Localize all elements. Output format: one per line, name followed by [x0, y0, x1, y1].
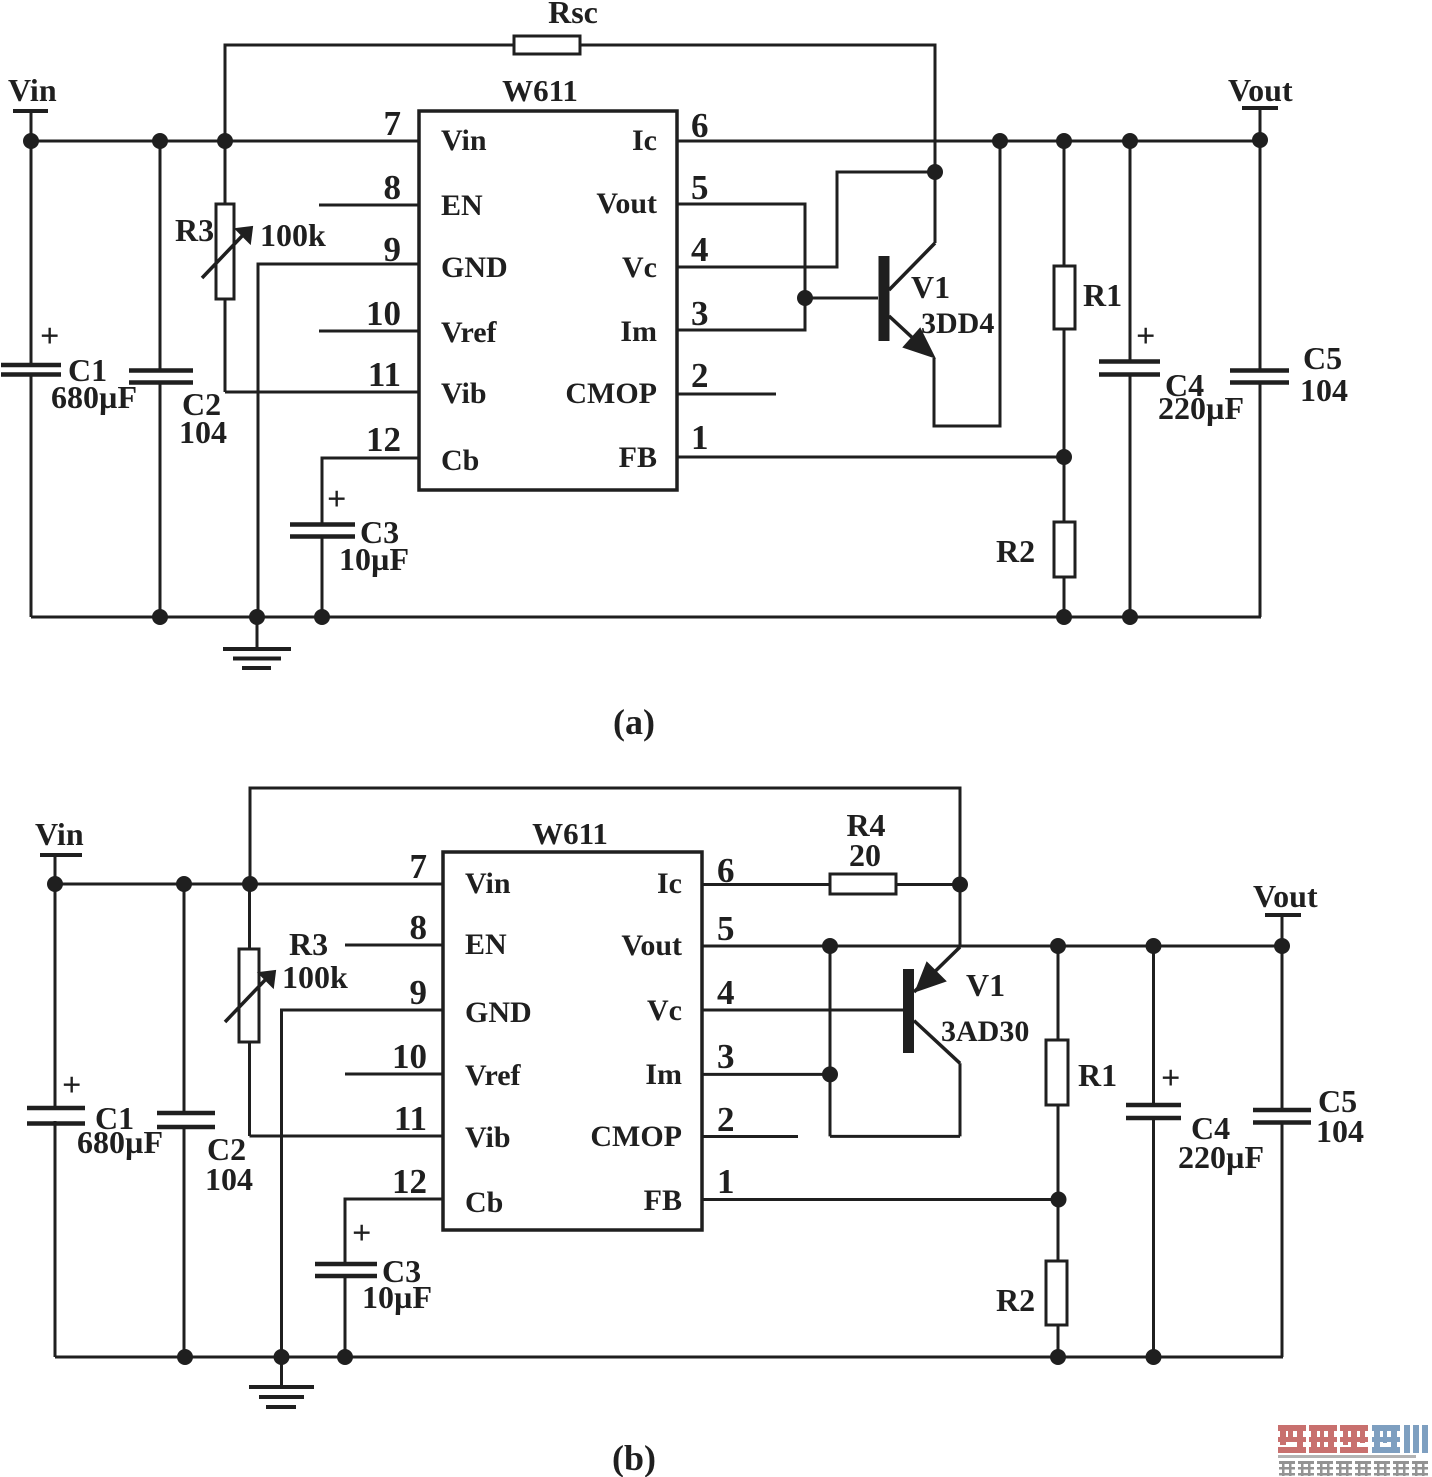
- svg-text:9: 9: [410, 973, 428, 1012]
- svg-text:V1: V1: [966, 967, 1005, 1003]
- svg-text:20: 20: [849, 837, 881, 873]
- wire FB pin 1 (b): [702, 1198, 1059, 1201]
- wire GND pin 9 (b): [282, 1010, 444, 1357]
- svg-text:Ic: Ic: [632, 124, 657, 157]
- svg-text:104: 104: [205, 1161, 253, 1197]
- IC left pin names (b): [465, 867, 532, 1219]
- junction dots (a): [23, 132, 1268, 625]
- wire FB pin 1 (a): [677, 456, 1064, 459]
- svg-text:100k: 100k: [260, 217, 326, 253]
- svg-text:GND: GND: [441, 251, 508, 284]
- svg-text:Vout: Vout: [621, 929, 682, 962]
- svg-text:+: +: [62, 1067, 81, 1104]
- svg-text:5: 5: [691, 168, 709, 207]
- svg-text:R2: R2: [996, 1282, 1035, 1318]
- svg-text:R3: R3: [289, 926, 328, 962]
- svg-text:V1: V1: [911, 269, 950, 305]
- wire Vref pin 10 stub (b): [345, 1073, 443, 1076]
- svg-text:EN: EN: [441, 189, 483, 222]
- svg-text:Rsc: Rsc: [548, 0, 598, 30]
- wire ground rail bottom (a): [31, 616, 1261, 619]
- svg-text:Cb: Cb: [441, 444, 479, 477]
- wire Vc pin 4 to base (b): [702, 1009, 903, 1012]
- svg-text:Vout: Vout: [1228, 72, 1293, 108]
- svg-text:100k: 100k: [282, 959, 348, 995]
- resistor R2 (b): [1046, 1261, 1067, 1325]
- wire CMOP pin 2 stub (a): [677, 393, 776, 396]
- svg-text:3: 3: [691, 294, 709, 333]
- capacitor C1 plates (b): [27, 1108, 85, 1124]
- svg-text:Cb: Cb: [465, 1186, 503, 1219]
- resistor Rsc (a): [514, 36, 580, 54]
- svg-text:R1: R1: [1078, 1057, 1117, 1093]
- wire R1 R2 divider branch (a): [1063, 141, 1066, 266]
- svg-text:2: 2: [717, 1100, 735, 1139]
- svg-text:Vin: Vin: [465, 867, 511, 900]
- svg-text:104: 104: [1300, 372, 1348, 408]
- svg-text:7: 7: [410, 847, 428, 886]
- svg-text:CMOP: CMOP: [565, 377, 657, 410]
- wire Rsc top net (a): [225, 45, 935, 243]
- wire Cb pin 12 to C3 (b): [345, 1199, 443, 1262]
- svg-text:10: 10: [392, 1037, 427, 1076]
- svg-text:R3: R3: [175, 212, 214, 248]
- wire CMOP pin 2 stub (b): [702, 1135, 798, 1138]
- svg-text:+: +: [352, 1215, 371, 1252]
- svg-text:4: 4: [691, 230, 709, 269]
- resistor R1 (a): [1054, 266, 1075, 329]
- svg-text:8: 8: [410, 908, 428, 947]
- wire input rail left (a): [13, 109, 48, 113]
- pin numbers left side (b): [392, 847, 427, 1201]
- wire emitter vertical of V1 (b): [959, 885, 962, 948]
- capacitor C4 plates (a): [1099, 362, 1160, 375]
- wire C2 branch (b): [183, 884, 186, 1111]
- svg-text:3: 3: [717, 1037, 735, 1076]
- svg-text:W611: W611: [532, 816, 608, 851]
- wire Vout-Im-collector node (b): [829, 946, 832, 1136]
- svg-text:9: 9: [384, 230, 402, 269]
- svg-text:Vc: Vc: [622, 251, 657, 284]
- wire C1 branch (b): [54, 884, 57, 1106]
- wire EN pin 8 stub (a): [319, 204, 419, 207]
- transistor V1 3DD4 (a): [879, 243, 936, 357]
- svg-text:10µF: 10µF: [362, 1279, 432, 1315]
- wire output rail (a): [677, 140, 1261, 143]
- wire C2 branch (a): [159, 141, 162, 369]
- svg-text:8: 8: [384, 168, 402, 207]
- wire Vib pin 11 (b): [250, 1135, 444, 1138]
- watermark logo blue glyphs: [1372, 1425, 1428, 1453]
- svg-text:4: 4: [717, 973, 735, 1012]
- svg-text:Im: Im: [620, 315, 657, 348]
- svg-text:+: +: [1136, 318, 1155, 355]
- wire input rail (b): [55, 883, 443, 886]
- pin numbers left side (a): [366, 104, 401, 459]
- svg-text:1: 1: [717, 1162, 735, 1201]
- svg-text:Ic: Ic: [657, 867, 682, 900]
- svg-text:GND: GND: [465, 996, 532, 1029]
- svg-text:EN: EN: [465, 928, 507, 961]
- wire GND pin 9 (a): [258, 264, 419, 617]
- wire Vin terminal (b): [40, 853, 82, 857]
- ground symbol (a): [223, 617, 291, 668]
- wire Im pin 3 (b): [702, 1073, 830, 1076]
- svg-text:Vin: Vin: [441, 124, 487, 157]
- capacitor C5 plates (a): [1230, 371, 1289, 383]
- svg-text:6: 6: [691, 106, 709, 145]
- wire base of V1 (a): [805, 297, 878, 300]
- svg-text:CMOP: CMOP: [590, 1120, 682, 1153]
- svg-text:1: 1: [691, 418, 709, 457]
- resistor R4 (b): [830, 874, 896, 894]
- svg-text:12: 12: [392, 1162, 427, 1201]
- svg-text:+: +: [1161, 1060, 1180, 1097]
- resistor R2 (a): [1054, 522, 1075, 577]
- junction dots (b): [47, 876, 1290, 1365]
- potentiometer R3 (a): [202, 204, 252, 299]
- wire EN pin 8 stub (b): [345, 944, 443, 947]
- svg-text:Vib: Vib: [441, 377, 487, 410]
- svg-text:FB: FB: [619, 441, 657, 474]
- ground symbol (b): [249, 1357, 314, 1407]
- svg-text:3AD30: 3AD30: [941, 1015, 1029, 1048]
- svg-text:(a): (a): [613, 702, 655, 742]
- svg-text:R2: R2: [996, 533, 1035, 569]
- potentiometer R3 (b): [225, 949, 275, 1042]
- wire R3 branch (b): [248, 884, 251, 949]
- pin numbers right side (a): [691, 106, 709, 457]
- watermark divider line: [1278, 1455, 1416, 1458]
- wire ground rail bottom (b): [55, 1356, 1283, 1359]
- svg-text:C5: C5: [1303, 340, 1342, 376]
- wire Vout terminal (b): [1265, 913, 1301, 917]
- svg-text:12: 12: [366, 420, 401, 459]
- capacitor C2 plates (b): [157, 1113, 215, 1127]
- wire R3 branch (a): [224, 141, 227, 204]
- svg-text:2: 2: [691, 356, 709, 395]
- svg-text:680µF: 680µF: [77, 1124, 163, 1160]
- svg-text:7: 7: [384, 104, 402, 143]
- svg-text:Vref: Vref: [465, 1059, 522, 1092]
- wire top net Vin to emitter (b): [250, 788, 960, 884]
- svg-text:Im: Im: [645, 1058, 682, 1091]
- resistor R1 (b): [1046, 1040, 1068, 1105]
- capacitor C3 plates (b): [315, 1264, 377, 1276]
- svg-text:11: 11: [368, 355, 401, 394]
- svg-text:Vin: Vin: [35, 816, 84, 852]
- svg-text:Vc: Vc: [647, 994, 682, 1027]
- IC left pin names (a): [441, 124, 508, 477]
- svg-text:220µF: 220µF: [1158, 390, 1244, 426]
- svg-text:R1: R1: [1083, 277, 1122, 313]
- transistor V1 3AD30 (b): [903, 947, 960, 1136]
- svg-text:3DD4: 3DD4: [921, 307, 994, 340]
- svg-text:Vout: Vout: [1253, 878, 1318, 914]
- svg-text:Vout: Vout: [596, 187, 657, 220]
- capacitor C4 plates (b): [1126, 1105, 1181, 1118]
- wire Vc pin 4 to collector node (a): [677, 172, 935, 267]
- svg-text:10µF: 10µF: [339, 541, 409, 577]
- svg-text:220µF: 220µF: [1178, 1139, 1264, 1175]
- watermark subtitle gray glyphs: [1279, 1461, 1428, 1476]
- wire Vib pin 11 (a): [225, 391, 419, 394]
- capacitor C5 plates (b): [1253, 1110, 1311, 1123]
- wire emitter of V1 to output rail (a): [934, 141, 1000, 426]
- wire C5 Vout branch (a): [1242, 106, 1278, 110]
- wire C1 branch (a): [30, 141, 33, 363]
- wire Ic pin 6 to R4 (b): [702, 883, 830, 886]
- wire C4 branch (b): [1152, 946, 1155, 1103]
- watermark logo red glyphs: [1278, 1425, 1368, 1453]
- svg-text:104: 104: [179, 414, 227, 450]
- IC U1 W611 body (a): [419, 111, 677, 490]
- svg-text:10: 10: [366, 294, 401, 333]
- svg-text:FB: FB: [644, 1184, 682, 1217]
- capacitor C3 plates (a): [290, 525, 355, 537]
- svg-text:6: 6: [717, 851, 735, 890]
- wire C5 branch (b): [1281, 946, 1284, 1108]
- wire R1 R2 divider branch (b): [1057, 946, 1060, 1040]
- wire Cb pin 12 to C3 (a): [322, 458, 419, 523]
- svg-text:5: 5: [717, 909, 735, 948]
- pin numbers right side (b): [717, 851, 735, 1201]
- svg-text:W611: W611: [502, 73, 578, 108]
- IC U1 W611 body (b): [443, 852, 702, 1230]
- capacitor C1 plates (a): [1, 365, 61, 375]
- IC right pin names (b): [590, 867, 682, 1217]
- svg-text:104: 104: [1316, 1113, 1364, 1149]
- svg-text:+: +: [327, 481, 346, 518]
- wire Vref pin 10 stub (a): [319, 330, 419, 333]
- IC right pin names (a): [565, 124, 657, 474]
- svg-text:11: 11: [394, 1099, 427, 1138]
- svg-text:Vib: Vib: [465, 1121, 511, 1154]
- wire C4 branch (a): [1129, 141, 1132, 360]
- svg-text:+: +: [40, 318, 59, 355]
- svg-text:Vref: Vref: [441, 316, 498, 349]
- svg-text:(b): (b): [612, 1438, 656, 1477]
- capacitor C2 plates (a): [129, 371, 193, 383]
- wire Vout pin 5 to base net (a): [677, 204, 805, 330]
- svg-text:Vin: Vin: [8, 72, 57, 108]
- svg-text:680µF: 680µF: [51, 379, 137, 415]
- wire Vout rail pin 5 (b): [702, 945, 1282, 948]
